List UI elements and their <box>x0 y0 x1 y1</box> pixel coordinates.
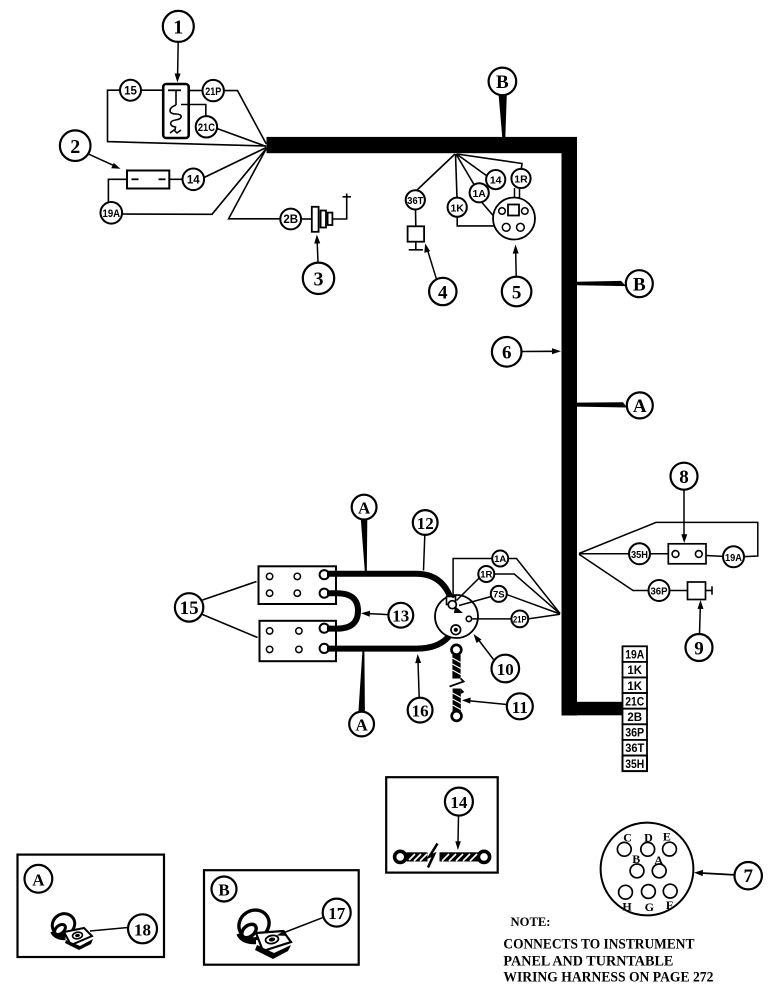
wire block to 14 <box>169 178 182 180</box>
callout 14 (bond strap) with leader <box>445 788 473 850</box>
svg-text:21C: 21C <box>198 122 215 134</box>
horn relay body (item 10 target) <box>435 595 478 638</box>
detail box 14 <box>386 777 498 872</box>
svg-text:35H: 35H <box>631 549 648 561</box>
wire harness to 1R <box>457 154 522 169</box>
svg-text:16: 16 <box>412 701 429 720</box>
svg-text:21P: 21P <box>205 86 221 98</box>
svg-text:8: 8 <box>679 467 689 488</box>
wire label 14 (top) <box>183 169 205 191</box>
wire label 1R (top) <box>511 169 530 188</box>
svg-text:A: A <box>633 396 647 417</box>
svg-text:7S: 7S <box>493 590 505 601</box>
terminal block lower (item 15b) <box>260 621 337 661</box>
wire 1R to harness <box>494 574 560 614</box>
callout B (right side) <box>577 270 653 297</box>
svg-text:10: 10 <box>497 660 514 679</box>
wire 7S to harness <box>507 595 560 615</box>
svg-text:9: 9 <box>694 638 704 659</box>
callout 6 with arrow to harness <box>492 337 561 367</box>
fuse holder (item 8 target) <box>668 544 706 564</box>
svg-text:21P: 21P <box>513 615 527 626</box>
svg-text:19A: 19A <box>725 552 742 564</box>
wire label 21P (mid) <box>511 611 528 628</box>
svg-text:21C: 21C <box>625 696 644 708</box>
wire 1A to connector <box>482 202 501 224</box>
wire harness main bar (horizontal top) <box>267 137 578 153</box>
svg-text:1A: 1A <box>472 188 486 200</box>
SECTION: right assembly <box>579 463 758 771</box>
wire label 1R (mid) <box>478 566 494 582</box>
wire relay to 21P <box>472 618 511 620</box>
wire label 14 (engine) <box>486 170 505 189</box>
detail box B <box>204 870 359 965</box>
wire label 36T <box>406 190 425 209</box>
wire 14 to harness <box>204 148 266 178</box>
svg-text:1R: 1R <box>514 174 528 186</box>
wire harness to right fan upper <box>579 522 758 556</box>
svg-text:14: 14 <box>187 175 200 187</box>
detail label B <box>212 877 237 902</box>
wire sender to 21C <box>181 105 206 117</box>
svg-text:6: 6 <box>502 343 512 364</box>
svg-text:F: F <box>666 898 673 912</box>
wire harness to 2B <box>229 150 281 219</box>
callout 1 with arrow <box>163 11 194 83</box>
svg-text:36T: 36T <box>625 743 644 755</box>
wire label 1A (mid) <box>492 551 508 567</box>
callout A (mid bottom) with taper <box>349 652 374 737</box>
svg-text:A: A <box>32 870 45 889</box>
wire 21P to harness <box>224 91 266 144</box>
svg-text:19A: 19A <box>625 650 644 662</box>
callout A (mid top) with taper <box>352 495 377 571</box>
svg-text:A: A <box>355 715 368 734</box>
callout 11 with leader <box>462 693 533 719</box>
terminal lug 4 <box>320 644 329 653</box>
svg-text:36P: 36P <box>625 728 644 740</box>
callout 18 with leader <box>90 914 157 943</box>
callout B (top) <box>489 68 517 138</box>
wire 21C to harness <box>217 129 266 147</box>
svg-text:15: 15 <box>124 85 137 97</box>
callout 7 with arrow <box>694 862 762 889</box>
heavy wire 13 (U loop) <box>327 593 358 628</box>
wire label 36P <box>649 580 670 601</box>
wire label 15 <box>120 80 141 101</box>
callout 9 with arrow <box>686 600 713 661</box>
svg-text:14: 14 <box>490 175 502 187</box>
svg-text:12: 12 <box>417 514 434 533</box>
svg-text:35H: 35H <box>625 759 644 771</box>
wire label 21P <box>203 80 224 101</box>
wire label 19A (right) <box>723 546 744 567</box>
instrument connector face (item 7 target) <box>601 823 694 916</box>
wire harness to 35H <box>579 553 629 555</box>
callout 15 with two leaders <box>175 582 258 638</box>
wire 1K to connector <box>457 217 497 226</box>
terminal lug 2 <box>320 589 329 598</box>
svg-text:36T: 36T <box>407 195 424 207</box>
svg-text:11: 11 <box>512 698 528 717</box>
temperature sender body (item 4 target) <box>408 226 425 250</box>
svg-text:3: 3 <box>314 269 324 291</box>
wire harness to 1A <box>456 154 474 185</box>
wire harness to 1K <box>456 154 458 198</box>
connector plug (item 9 target) <box>688 582 713 600</box>
svg-text:C: C <box>623 831 632 845</box>
svg-text:5: 5 <box>512 282 522 303</box>
wire 15 to sender <box>141 89 163 91</box>
note text <box>503 915 713 985</box>
wire label 19A (top) <box>101 202 123 224</box>
svg-text:NOTE:: NOTE: <box>511 915 551 929</box>
SECTION: top-left fuel sender <box>60 11 351 294</box>
callout 2 with arrow <box>60 130 121 168</box>
callout 16 with arrow <box>408 654 433 722</box>
callout 12 with leader <box>413 510 438 570</box>
svg-text:18: 18 <box>134 920 151 939</box>
wire sender to 21P <box>189 90 203 92</box>
terminal block upper (item 15a) <box>259 566 337 604</box>
wire label 7S <box>491 586 507 602</box>
svg-text:B: B <box>633 275 646 296</box>
pressure sender (item 3 target) <box>312 194 351 232</box>
svg-text:WIRING HARNESS ON PAGE 272: WIRING HARNESS ON PAGE 272 <box>503 969 713 985</box>
terminal lug 1 <box>320 570 329 579</box>
SECTION: breakout under top bar <box>406 154 535 306</box>
SECTION: mid assembly <box>175 495 560 737</box>
heavy wire 12 (upper) <box>327 574 452 601</box>
svg-text:17: 17 <box>328 904 346 923</box>
svg-text:B: B <box>632 852 640 866</box>
terminal lug 3 <box>320 624 329 633</box>
svg-text:A: A <box>358 498 371 517</box>
svg-text:H: H <box>622 900 632 914</box>
svg-text:1K: 1K <box>627 665 642 677</box>
wire harness to 36P <box>579 554 648 590</box>
wire block to 19A <box>108 179 127 202</box>
svg-text:2: 2 <box>70 136 80 158</box>
svg-text:14: 14 <box>450 793 468 812</box>
wire 36P to connector plug <box>670 590 688 592</box>
SECTION: bottom details <box>18 777 762 985</box>
wire label 1A (top) <box>470 183 489 202</box>
wire label 1K (top) <box>448 198 467 217</box>
callout 17 with leader <box>277 899 351 936</box>
svg-text:B: B <box>496 72 509 93</box>
wire harness vertical bar <box>562 138 578 716</box>
wire 21P to harness <box>528 614 560 619</box>
svg-text:15: 15 <box>180 598 199 619</box>
svg-text:36P: 36P <box>651 586 668 598</box>
svg-text:CONNECTS TO INSTRUMENT: CONNECTS TO INSTRUMENT <box>503 937 694 953</box>
wire harness to 36T <box>417 154 456 191</box>
svg-text:B: B <box>218 880 229 899</box>
callout 4 with arrow <box>424 244 456 306</box>
wire 7S to relay lug <box>459 597 491 606</box>
wire harness to 14 <box>457 154 488 176</box>
svg-text:1K: 1K <box>450 202 464 214</box>
ground stud chain (item 11 target) <box>450 645 465 721</box>
callout 8 with arrow <box>671 463 698 543</box>
svg-text:13: 13 <box>392 607 409 626</box>
callout A (right side) <box>577 392 653 418</box>
cable clamp small (item 18 target) <box>48 909 93 950</box>
ignition switch connector (item 5 target) <box>493 198 535 240</box>
svg-text:4: 4 <box>438 282 448 303</box>
detail box A <box>18 855 165 957</box>
wire label 35H <box>629 543 650 564</box>
svg-text:E: E <box>663 830 671 844</box>
wire 19A to harness <box>122 149 266 215</box>
callout 10 with arrow <box>474 634 520 682</box>
callout 13 with arrow <box>361 603 413 628</box>
wire 15 loop to harness <box>108 90 267 146</box>
fuel gauge sender unit (item 1 target) <box>163 84 189 138</box>
ground bond strap <box>395 844 490 868</box>
svg-text:A: A <box>654 853 663 867</box>
heavy wire 16 (lower) <box>327 632 453 649</box>
svg-text:PANEL AND TURNTABLE: PANEL AND TURNTABLE <box>503 953 673 969</box>
wire 1R to connector key (double) <box>514 188 516 204</box>
svg-text:19A: 19A <box>103 208 121 220</box>
svg-text:1: 1 <box>173 17 183 39</box>
wire 36T to sender body <box>415 210 417 227</box>
callout 3 with arrow <box>303 235 334 294</box>
svg-text:G: G <box>645 900 654 914</box>
wire label 21C <box>196 116 217 137</box>
svg-text:7: 7 <box>743 866 753 887</box>
SECTION: harness <box>267 68 653 716</box>
wire 2B to sender switch <box>301 218 311 220</box>
wire fuse holder to 19A <box>706 555 723 558</box>
callout 5 with arrow <box>502 245 532 307</box>
svg-text:1A: 1A <box>494 554 506 565</box>
cable clamp large (item 17 target) <box>233 904 291 959</box>
detail label A <box>25 865 53 893</box>
wire label 2B <box>280 209 301 230</box>
wire 1R to relay lug <box>457 578 480 601</box>
svg-text:1R: 1R <box>480 570 492 581</box>
wire 1A to harness <box>508 559 560 614</box>
svg-text:2B: 2B <box>627 712 642 724</box>
wire harness bottom stub <box>562 702 623 716</box>
svg-text:D: D <box>644 830 653 844</box>
svg-text:2B: 2B <box>283 214 298 226</box>
resistor block (item 2 target) <box>127 171 169 189</box>
wire 1A to relay lug <box>453 559 492 599</box>
wire code chart <box>623 646 648 771</box>
svg-text:1K: 1K <box>627 681 642 693</box>
wire 35H to fuse holder <box>650 553 668 555</box>
